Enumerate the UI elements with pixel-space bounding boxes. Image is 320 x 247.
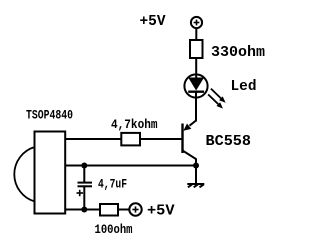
wire R3 to terminal xyxy=(118,209,129,211)
label +5V (top) xyxy=(140,13,166,30)
label 4,7uF xyxy=(98,177,127,192)
label TSOP4840 xyxy=(26,108,73,123)
svg-text:BC558: BC558 xyxy=(206,133,252,150)
node collector/ground junction xyxy=(193,163,199,169)
label +5V (bottom) xyxy=(147,203,175,220)
capacitor C1 4,7uF xyxy=(78,183,93,187)
wire C1 bottom to node xyxy=(83,187,85,210)
wire node to C1 top xyxy=(83,166,85,183)
resistor R2 4,7kohm xyxy=(121,133,140,146)
IC U1 TSOP4840 body xyxy=(14,132,65,214)
resistor R3 100ohm xyxy=(100,204,118,216)
wire LED to emitter xyxy=(195,92,197,122)
svg-text:4,7kohm: 4,7kohm xyxy=(111,117,158,132)
led D1 xyxy=(184,74,207,97)
label Led xyxy=(231,78,257,95)
wire terminal to R1 xyxy=(195,28,197,40)
label BC558 xyxy=(206,133,252,150)
resistor R1 330ohm xyxy=(190,40,203,58)
node capacitor top junction xyxy=(81,163,87,169)
wire TSOP pin2 to collector node xyxy=(66,165,197,167)
led light arrows xyxy=(208,89,226,109)
wire R1 to LED xyxy=(195,58,197,79)
node capacitor bottom junction xyxy=(81,207,87,213)
svg-text:330ohm: 330ohm xyxy=(211,44,265,61)
svg-text:+5V: +5V xyxy=(147,203,175,220)
wire R2 to base xyxy=(140,138,183,140)
wire TSOP pin3 to R3 xyxy=(66,209,101,211)
svg-text:+5V: +5V xyxy=(140,13,166,30)
power +5V bottom terminal xyxy=(129,203,141,215)
wire TSOP pin1 to R2 xyxy=(66,138,122,140)
svg-text:100ohm: 100ohm xyxy=(95,222,133,237)
svg-text:4,7uF: 4,7uF xyxy=(98,177,127,192)
label 330ohm xyxy=(211,44,265,61)
svg-text:Led: Led xyxy=(231,78,257,95)
label 4,7kohm xyxy=(111,117,158,132)
label 100ohm xyxy=(95,222,133,237)
polarity + of C1 xyxy=(77,190,84,196)
ground xyxy=(187,184,204,187)
transistor Q1 BC558 (PNP) xyxy=(183,121,197,165)
wire node to ground xyxy=(195,166,197,185)
power +5V top terminal xyxy=(191,17,202,28)
svg-text:TSOP4840: TSOP4840 xyxy=(26,108,73,123)
